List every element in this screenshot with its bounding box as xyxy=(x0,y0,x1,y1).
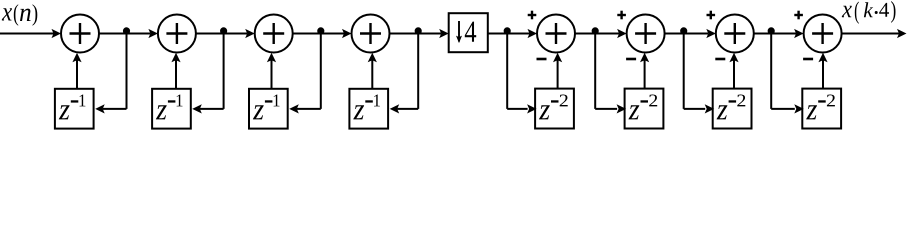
wire: feedback into delay Z3 right side with arrowhead xyxy=(297,108,321,110)
comb adder U5 xyxy=(537,15,575,53)
label z^-2 of delay Z8 xyxy=(806,105,817,119)
wire: delay Z6 output up into adder U6 with arrowhead xyxy=(644,60,646,89)
label z^-2 of delay Z7 xyxy=(717,105,728,119)
wire: adder U3 output to node N3 xyxy=(293,33,321,35)
delay block Z6 xyxy=(625,89,664,129)
integrator adder U1 xyxy=(61,15,99,53)
wire: adder U1 output to node N1 xyxy=(99,33,127,35)
node N5 junction dot xyxy=(504,27,511,34)
integrator adder U3 xyxy=(255,15,293,53)
label: down-arrow inside D1 xyxy=(458,21,460,42)
delay block Z2 xyxy=(152,89,191,129)
label z^-1 of delay Z2 xyxy=(156,105,167,119)
wire: delay Z8 output up into adder U8 with arrowhead xyxy=(822,60,824,89)
minus sign label at comb adder U6 xyxy=(626,58,636,61)
wire: delay Z3 output up into adder U3 with arrowhead xyxy=(271,60,273,89)
node N3 junction dot xyxy=(317,27,324,34)
wire: feedback into delay Z2 right side with arrowhead xyxy=(200,108,224,110)
wire: delay Z2 output up into adder U2 with arrowhead xyxy=(175,60,177,89)
wire: into delay Z5 left side with arrowhead xyxy=(507,108,527,110)
wire: delay Z4 output up into adder U4 with arrowhead xyxy=(371,60,373,89)
plus sign label at comb adder U5 xyxy=(528,14,537,16)
comb adder U7 xyxy=(716,15,754,53)
node N8 junction dot xyxy=(768,27,775,34)
wire: node N8 into comb adder U8 with arrowhead xyxy=(771,33,796,35)
wire: input into integrator adder U1 xyxy=(0,33,54,35)
wire: adder U5 output to node N6 xyxy=(575,33,595,35)
wire: into delay Z8 left side with arrowhead xyxy=(771,108,795,110)
delay block Z1 xyxy=(55,89,94,129)
wire: feedback node N4 down xyxy=(417,34,419,109)
wire: node N8 down xyxy=(770,34,772,109)
label z^-1 of delay Z1 xyxy=(59,105,70,119)
minus sign label at comb adder U8 xyxy=(803,58,813,61)
label z^-2 of delay Z5 xyxy=(539,105,550,119)
output signal label x(k*4) xyxy=(842,6,852,18)
wire: node N6 down xyxy=(594,34,596,109)
plus sign label at comb adder U6 xyxy=(617,14,626,16)
wire: node N7 into comb adder U7 with arrowhead xyxy=(684,33,709,35)
wire: adder U2 output to node N2 xyxy=(196,33,224,35)
wire: delay Z1 output up into adder U1 with arrowhead xyxy=(76,60,78,89)
integrator adder U2 xyxy=(158,15,196,53)
wire: into delay Z6 left side with arrowhead xyxy=(595,108,617,110)
label z^-1 of delay Z4 xyxy=(353,105,364,119)
minus sign label at comb adder U5 xyxy=(537,58,547,61)
wire: feedback into delay Z4 right side with arrowhead xyxy=(397,108,418,110)
delay block Z5 xyxy=(535,89,574,129)
wire: feedback node N3 down xyxy=(320,34,322,109)
wire: node N6 into comb adder U6 with arrowhead xyxy=(595,33,619,35)
wire: feedback into delay Z1 right side with arrowhead xyxy=(103,108,127,110)
comb adder U8 xyxy=(804,15,842,53)
wire: feedback node N1 down xyxy=(126,34,128,109)
label z^-2 of delay Z6 xyxy=(629,105,640,119)
node N7 junction dot xyxy=(680,27,687,34)
wire: output of adder U8 with arrowhead xyxy=(842,33,899,35)
wire: node N3 to adder U4 with arrowhead xyxy=(321,33,344,35)
label z^-1 of delay Z3 xyxy=(253,105,264,119)
wire: node N2 to adder U3 with arrowhead xyxy=(224,33,248,35)
downsampler block D1 xyxy=(449,13,488,52)
wire: node N4 to downsampler D1 with arrowhead xyxy=(418,33,441,35)
wire: node N1 to adder U2 with arrowhead xyxy=(127,33,151,35)
wire: adder U4 output to node N4 xyxy=(390,33,419,35)
wire: delay Z5 output up into adder U5 with arrowhead xyxy=(557,60,559,89)
wire: node N5 down xyxy=(506,34,508,109)
wire: node N5 into comb adder U5 with arrowhead xyxy=(507,33,529,35)
integrator adder U4 xyxy=(352,15,390,53)
wire: delay Z7 output up into adder U7 with arrowhead xyxy=(733,60,735,89)
delay block Z4 xyxy=(349,89,388,129)
node N4 junction dot xyxy=(415,27,422,34)
node N1 junction dot xyxy=(123,27,130,34)
plus sign label at comb adder U8 xyxy=(794,14,803,16)
delay block Z7 xyxy=(713,89,752,129)
wire: adder U7 output to node N8 xyxy=(754,33,771,35)
wire: downsampler D1 output to node N5 xyxy=(488,33,507,35)
delay block Z3 xyxy=(249,89,288,129)
wire: node N7 down xyxy=(683,34,685,109)
comb adder U6 xyxy=(627,15,665,53)
plus sign label at comb adder U7 xyxy=(707,14,716,16)
delay block Z8 xyxy=(802,89,841,129)
node N2 junction dot xyxy=(220,27,227,34)
minus sign label at comb adder U7 xyxy=(715,58,725,61)
wire: into delay Z7 left side with arrowhead xyxy=(684,108,706,110)
label: factor 4 inside D1 xyxy=(465,22,476,42)
wire: adder U6 output to node N7 xyxy=(665,33,684,35)
input signal label x(n) xyxy=(2,8,12,20)
wire: feedback node N2 down xyxy=(223,34,225,109)
node N6 junction dot xyxy=(592,27,599,34)
